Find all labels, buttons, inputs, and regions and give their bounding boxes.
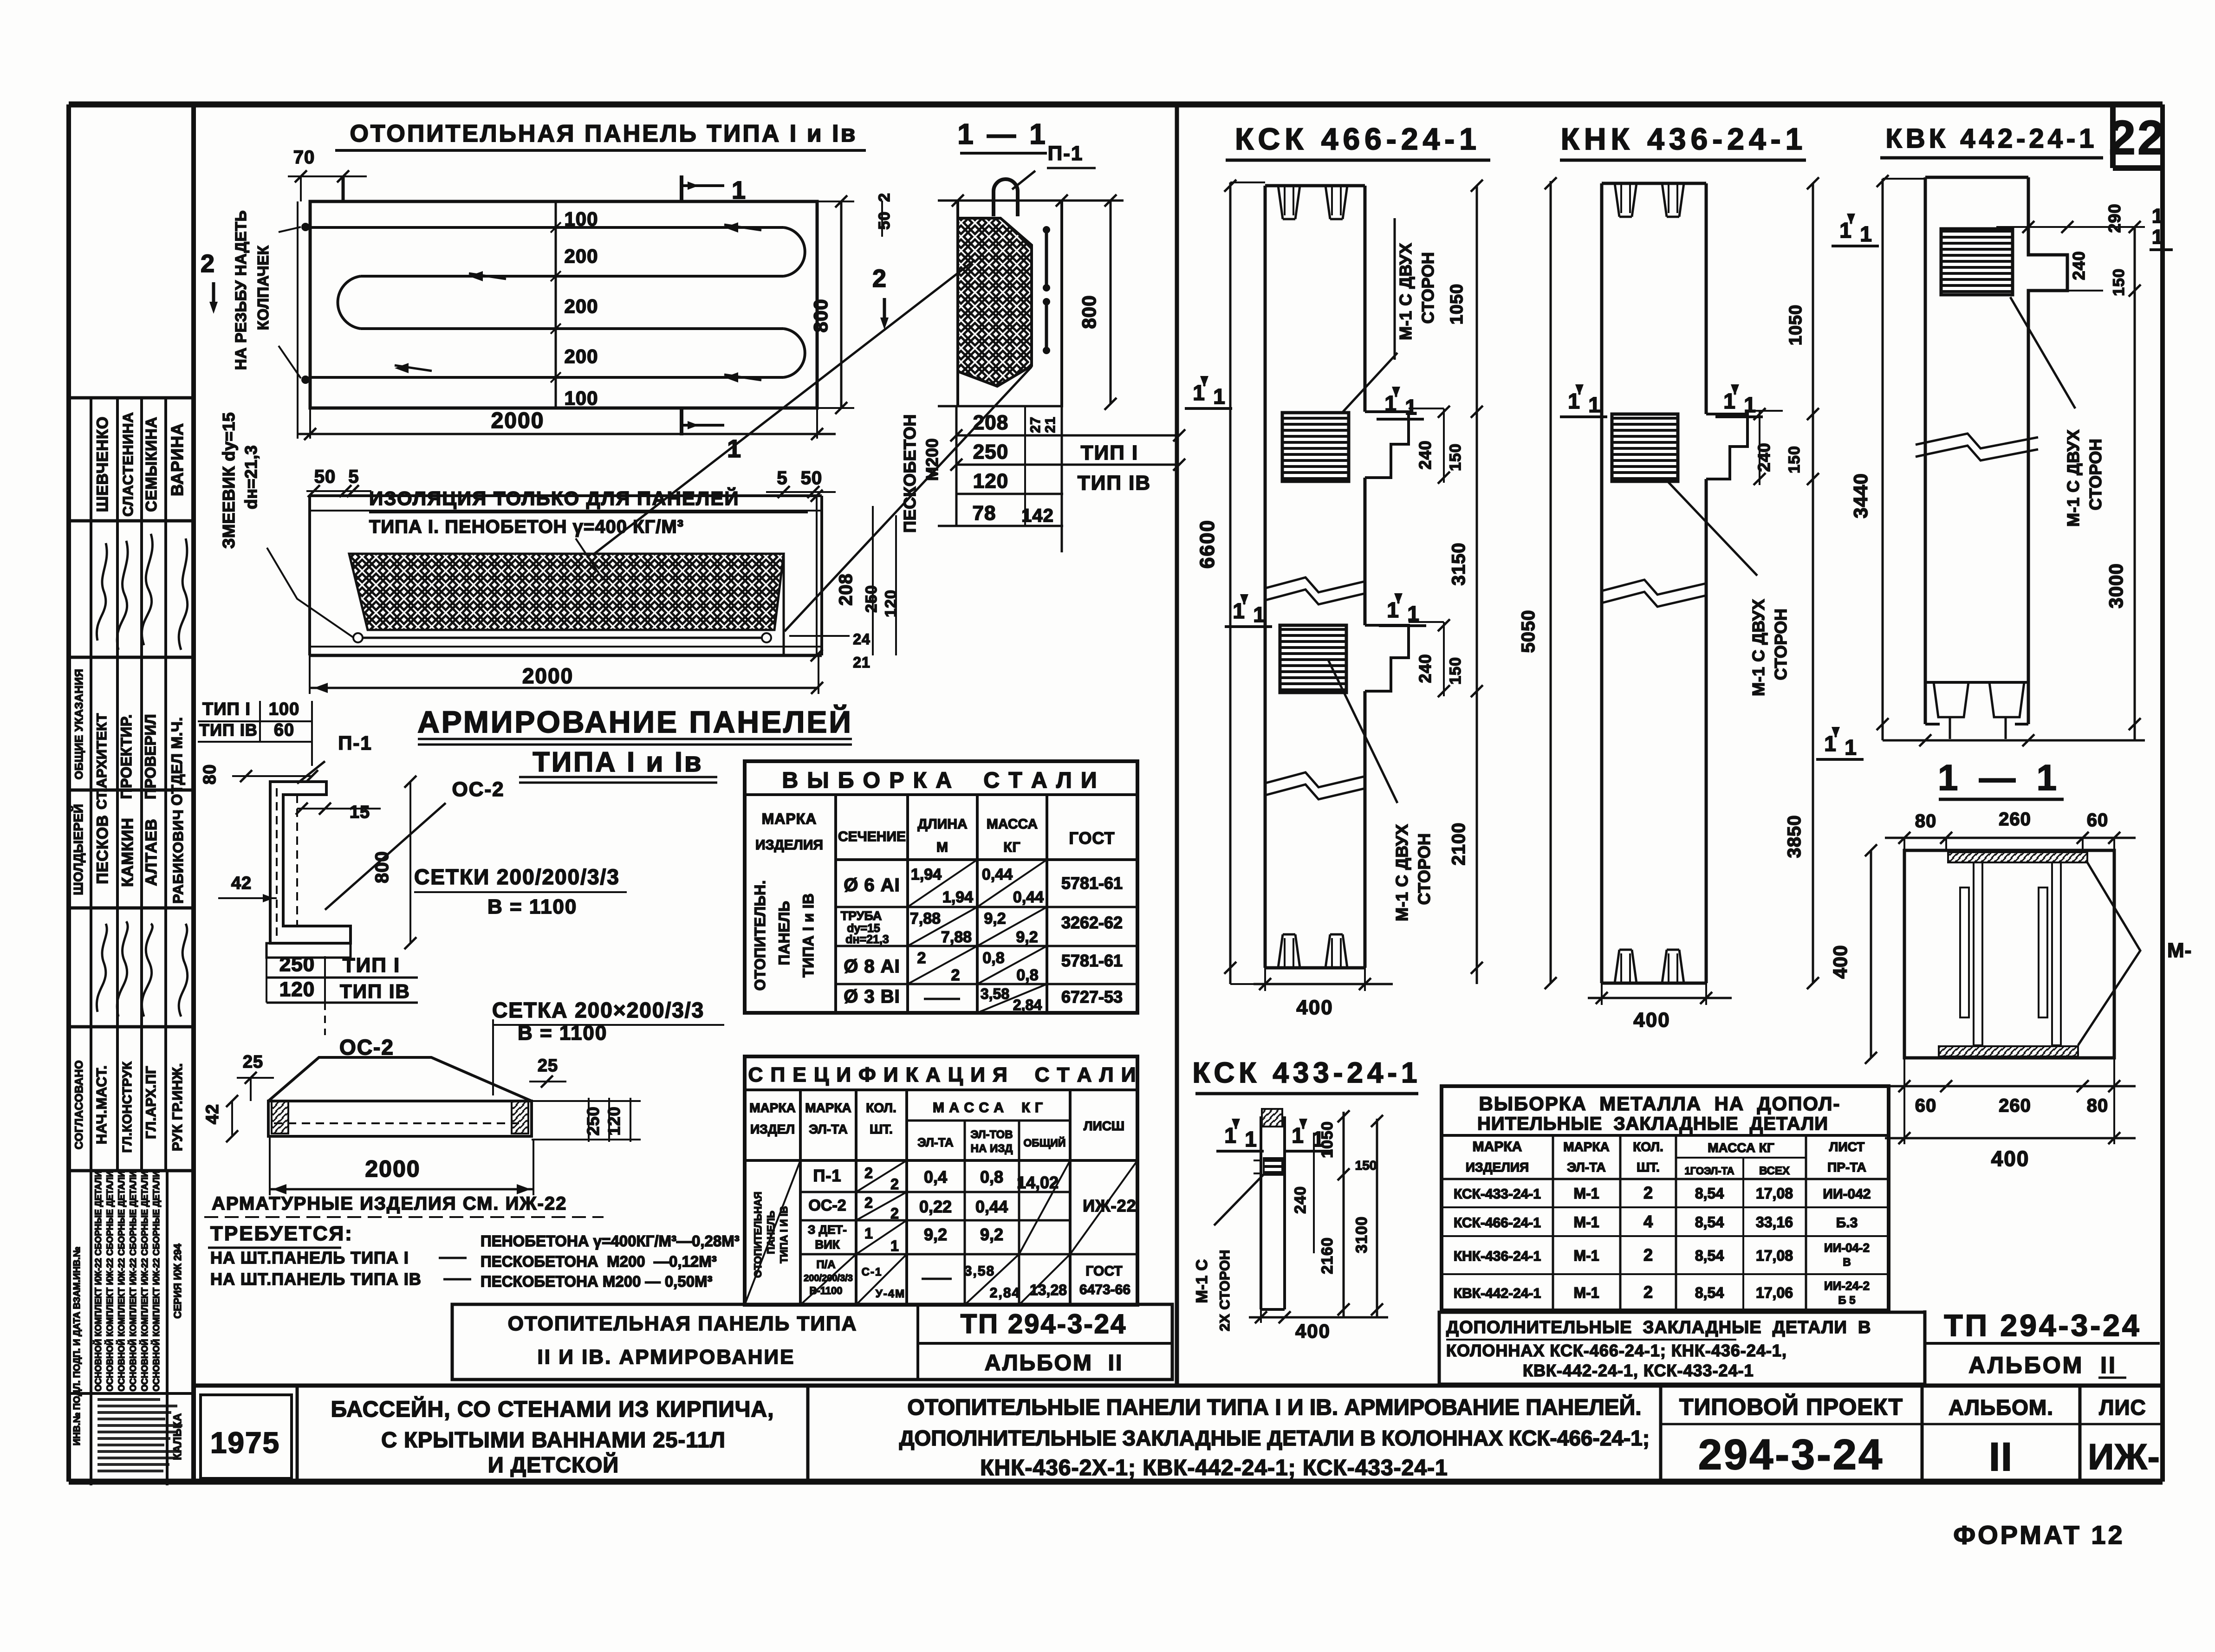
svg-text:ОС-2: ОС-2 [339, 1035, 394, 1059]
svg-text:МАРКА: МАРКА [1563, 1140, 1610, 1154]
svg-text:ГОСТ: ГОСТ [1069, 829, 1115, 848]
svg-text:М: М [936, 840, 948, 855]
svg-text:МАРКА: МАРКА [1473, 1139, 1522, 1154]
svg-text:1: 1 [1860, 222, 1872, 246]
svg-text:ПЕСКОВ: ПЕСКОВ [94, 815, 111, 884]
svg-text:М-1 С ДВУХ: М-1 С ДВУХ [1749, 599, 1768, 696]
svg-text:ОСНОВНОЙ КОМПЛЕКТ ИЖ-22 СБОРНЫ: ОСНОВНОЙ КОМПЛЕКТ ИЖ-22 СБОРНЫЕ ДЕТАЛИ [151, 1171, 162, 1391]
svg-text:3440: 3440 [1850, 473, 1871, 518]
svg-text:9,2: 9,2 [980, 1225, 1003, 1244]
svg-text:250: 250 [863, 585, 880, 613]
svg-text:ОБЩИЕ УКАЗАНИЯ: ОБЩИЕ УКАЗАНИЯ [73, 669, 85, 779]
svg-text:15: 15 [350, 803, 370, 822]
svg-text:4: 4 [1643, 1212, 1653, 1231]
svg-text:ТРЕБУЕТСЯ:: ТРЕБУЕТСЯ: [210, 1222, 353, 1245]
svg-text:2000: 2000 [491, 408, 545, 433]
svg-text:ТП 294-3-24: ТП 294-3-24 [1944, 1308, 2141, 1342]
svg-text:27: 27 [1028, 416, 1043, 433]
svg-text:5: 5 [777, 468, 787, 488]
svg-text:ПАНЕЛЬ: ПАНЕЛЬ [765, 1211, 777, 1254]
svg-text:Б.3: Б.3 [1836, 1215, 1858, 1231]
svg-text:dн=21,3: dн=21,3 [241, 445, 260, 509]
svg-text:0,8: 0,8 [1016, 966, 1038, 984]
svg-text:2: 2 [1643, 1283, 1653, 1302]
svg-text:1: 1 [1588, 393, 1600, 417]
svg-text:1: 1 [890, 1237, 900, 1254]
svg-text:СЕТКА 200×200/3/3: СЕТКА 200×200/3/3 [492, 998, 704, 1022]
svg-text:5781-61: 5781-61 [1061, 874, 1123, 893]
svg-text:1: 1 [864, 1225, 874, 1242]
svg-text:2: 2 [864, 1194, 874, 1211]
svg-text:50: 50 [801, 468, 823, 488]
svg-text:8,54: 8,54 [1695, 1284, 1724, 1301]
svg-text:42: 42 [231, 874, 252, 893]
svg-text:СТОРОН: СТОРОН [2086, 439, 2105, 511]
svg-text:ПЕНОБЕТОНА γ=400КГ/М³—0,28М³: ПЕНОБЕТОНА γ=400КГ/М³—0,28М³ [481, 1232, 740, 1250]
svg-text:150: 150 [1786, 446, 1803, 473]
svg-text:2: 2 [951, 966, 960, 984]
svg-text:290: 290 [2105, 203, 2124, 233]
svg-text:400: 400 [1295, 1320, 1331, 1342]
svg-text:П-1: П-1 [813, 1166, 842, 1185]
svg-text:КНК 436-24-1: КНК 436-24-1 [1561, 122, 1807, 156]
svg-text:1: 1 [1233, 599, 1245, 623]
svg-text:ДОПОЛНИТЕЛЬНЫЕ ЗАКЛАДНЫЕ ДЕТАЛ: ДОПОЛНИТЕЛЬНЫЕ ЗАКЛАДНЫЕ ДЕТАЛИ В КОЛОНН… [899, 1426, 1650, 1450]
svg-text:100: 100 [564, 208, 598, 230]
svg-text:ТИПА I И IВ: ТИПА I И IВ [778, 1206, 790, 1263]
svg-text:400: 400 [1633, 1009, 1670, 1031]
svg-text:В = 1100: В = 1100 [487, 895, 577, 918]
svg-text:МАРКА: МАРКА [805, 1101, 851, 1115]
svg-text:1: 1 [1744, 393, 1756, 417]
svg-text:ЛИСШ: ЛИСШ [1084, 1119, 1124, 1133]
svg-text:3000: 3000 [2105, 563, 2127, 608]
svg-text:1,94: 1,94 [911, 866, 942, 883]
svg-text:5050: 5050 [1518, 610, 1539, 653]
svg-text:ИЗДЕЛИЯ: ИЗДЕЛИЯ [755, 837, 823, 853]
svg-text:ИИ-04-2: ИИ-04-2 [1824, 1241, 1870, 1255]
svg-text:dн=21,3: dн=21,3 [845, 933, 889, 946]
svg-text:800: 800 [810, 298, 831, 332]
svg-text:8,54: 8,54 [1695, 1247, 1724, 1264]
svg-text:400: 400 [1296, 996, 1333, 1019]
svg-text:1: 1 [1193, 381, 1205, 405]
svg-text:ПР-ТА: ПР-ТА [1827, 1160, 1866, 1174]
svg-text:3150: 3150 [1449, 543, 1469, 586]
svg-text:НА ИЗД: НА ИЗД [971, 1142, 1013, 1155]
svg-text:0,8: 0,8 [980, 1167, 1003, 1186]
svg-text:60: 60 [2087, 810, 2109, 830]
svg-text:ТРУБА: ТРУБА [841, 909, 882, 923]
svg-text:КАЛЬКА: КАЛЬКА [171, 1413, 184, 1460]
svg-text:14,02: 14,02 [1017, 1173, 1059, 1192]
svg-text:ИНВ.№ ПОДЛ. ПОДП. И ДАТА ВЗАМ.: ИНВ.№ ПОДЛ. ПОДП. И ДАТА ВЗАМ.ИНВ.№ [72, 1247, 82, 1445]
svg-text:2,84: 2,84 [990, 1285, 1020, 1301]
svg-text:АРМАТУРНЫЕ ИЗДЕЛИЯ СМ. ИЖ-22: АРМАТУРНЫЕ ИЗДЕЛИЯ СМ. ИЖ-22 [212, 1193, 567, 1214]
svg-text:400: 400 [1991, 1147, 2030, 1171]
svg-text:РУК ГР.ИНЖ.: РУК ГР.ИНЖ. [170, 1063, 185, 1151]
svg-text:208: 208 [973, 411, 1008, 434]
svg-text:М200: М200 [922, 438, 942, 481]
svg-text:22: 22 [2109, 111, 2166, 165]
svg-text:120: 120 [973, 470, 1008, 492]
svg-text:100: 100 [269, 700, 299, 719]
svg-text:З ДЕТ-: З ДЕТ- [808, 1223, 847, 1237]
svg-text:50: 50 [314, 466, 336, 487]
svg-text:П-1: П-1 [338, 732, 372, 754]
svg-text:СЕЧЕНИЕ: СЕЧЕНИЕ [838, 829, 906, 844]
svg-text:РАБИКОВИЧ: РАБИКОВИЧ [170, 809, 186, 903]
svg-text:КНК-436-24-1: КНК-436-24-1 [1454, 1249, 1541, 1264]
svg-text:42: 42 [203, 1104, 222, 1124]
svg-text:0,44: 0,44 [975, 1197, 1008, 1216]
svg-text:6727-53: 6727-53 [1061, 987, 1123, 1006]
svg-text:КВК-442-24-1: КВК-442-24-1 [1454, 1286, 1541, 1301]
svg-text:ТИП I: ТИП I [1081, 441, 1139, 464]
svg-text:БАССЕЙН, СО СТЕНАМИ ИЗ КИРПИЧА: БАССЕЙН, СО СТЕНАМИ ИЗ КИРПИЧА, [331, 1396, 774, 1422]
svg-text:1,94: 1,94 [942, 888, 973, 906]
svg-text:2: 2 [917, 949, 926, 967]
svg-text:1050: 1050 [1786, 304, 1806, 346]
svg-text:КАМКИН: КАМКИН [119, 817, 136, 887]
svg-text:ЭЛ-ТА: ЭЛ-ТА [1567, 1160, 1605, 1174]
svg-text:1975: 1975 [210, 1426, 280, 1459]
svg-text:200: 200 [564, 295, 598, 317]
svg-text:АЛЬБОМ II: АЛЬБОМ II [1968, 1352, 2117, 1378]
svg-text:КНК-436-2Х-1; КВК-442-24-1; КС: КНК-436-2Х-1; КВК-442-24-1; КСК-433-24-1 [980, 1456, 1448, 1480]
svg-text:3100: 3100 [1353, 1216, 1371, 1253]
svg-text:250: 250 [973, 441, 1008, 463]
svg-text:1: 1 [1839, 218, 1851, 242]
svg-text:150: 150 [1355, 1158, 1377, 1173]
svg-text:ПРОЕКТИР.: ПРОЕКТИР. [118, 714, 135, 799]
svg-text:ТП 294-3-24: ТП 294-3-24 [961, 1309, 1127, 1339]
svg-text:ЛИСТ: ЛИСТ [1829, 1140, 1864, 1154]
svg-text:ГОСТ: ГОСТ [1085, 1263, 1122, 1279]
svg-text:КОЛОННАХ КСК-466-24-1; КНК-436: КОЛОННАХ КСК-466-24-1; КНК-436-24-1, [1446, 1341, 1787, 1360]
svg-text:ТИП I: ТИП I [202, 700, 251, 719]
svg-text:Ø 6 АI: Ø 6 АI [844, 875, 900, 895]
svg-text:М-1 С ДВУХ: М-1 С ДВУХ [1392, 824, 1411, 921]
svg-text:150: 150 [2110, 268, 2128, 296]
svg-text:5781-61: 5781-61 [1061, 951, 1123, 970]
svg-text:2: 2 [1643, 1183, 1653, 1202]
svg-text:М-1 С ДВУХ: М-1 С ДВУХ [2064, 429, 2083, 527]
svg-text:С КРЫТЫМИ ВАННАМИ 25-11Л: С КРЫТЫМИ ВАННАМИ 25-11Л [381, 1427, 726, 1452]
svg-text:ОТОПИТЕЛЬНАЯ ПАНЕЛЬ ТИПА: ОТОПИТЕЛЬНАЯ ПАНЕЛЬ ТИПА [508, 1312, 857, 1335]
svg-text:ОСНОВНОЙ КОМПЛЕКТ ИЖ-22 СБОРНЫ: ОСНОВНОЙ КОМПЛЕКТ ИЖ-22 СБОРНЫЕ ДЕТАЛИ [128, 1171, 138, 1391]
svg-text:17,08: 17,08 [1756, 1247, 1793, 1264]
svg-text:НА РЕЗЬБУ НАДЕТЬ: НА РЕЗЬБУ НАДЕТЬ [232, 210, 249, 370]
svg-text:ПРОВЕРИЛ: ПРОВЕРИЛ [142, 714, 159, 799]
svg-text:1: 1 [2152, 226, 2164, 248]
svg-text:80: 80 [2087, 1095, 2109, 1116]
svg-text:0,4: 0,4 [924, 1167, 947, 1186]
svg-text:25: 25 [538, 1056, 558, 1075]
svg-text:7,88: 7,88 [941, 928, 972, 946]
svg-text:КСК 433-24-1: КСК 433-24-1 [1192, 1057, 1421, 1089]
svg-text:П/А: П/А [816, 1258, 835, 1271]
svg-text:СТОРОН: СТОРОН [1418, 252, 1437, 324]
svg-text:1050: 1050 [1319, 1121, 1336, 1158]
svg-text:ИЗОЛЯЦИЯ ТОЛЬКО ДЛЯ ПАНЕЛЕЙ: ИЗОЛЯЦИЯ ТОЛЬКО ДЛЯ ПАНЕЛЕЙ [369, 487, 740, 509]
svg-text:2: 2 [890, 1205, 900, 1222]
svg-text:П-1: П-1 [1048, 142, 1084, 165]
svg-text:250: 250 [279, 953, 315, 976]
svg-text:У-4М: У-4М [876, 1288, 905, 1300]
svg-text:1: 1 [1405, 395, 1417, 419]
svg-text:ТИПОВОЙ ПРОЕКТ: ТИПОВОЙ ПРОЕКТ [1679, 1393, 1903, 1420]
svg-text:0,44: 0,44 [1013, 888, 1044, 906]
svg-text:2Х СТОРОН: 2Х СТОРОН [1217, 1250, 1233, 1331]
svg-text:ТИП I: ТИП I [343, 954, 401, 977]
svg-text:ВЫБОРКА МЕТАЛЛА НА ДОПОЛ-: ВЫБОРКА МЕТАЛЛА НА ДОПОЛ- [1479, 1093, 1841, 1114]
svg-text:9,2: 9,2 [984, 910, 1006, 927]
svg-text:80: 80 [200, 764, 220, 784]
svg-text:СЕМЫКИНА: СЕМЫКИНА [143, 416, 160, 512]
svg-text:1: 1 [1224, 1123, 1236, 1147]
svg-text:240: 240 [1416, 440, 1435, 469]
svg-text:2: 2 [890, 1176, 900, 1192]
svg-text:МАРКА: МАРКА [762, 810, 817, 827]
svg-text:1 — 1: 1 — 1 [957, 118, 1048, 150]
svg-text:260: 260 [1999, 809, 2031, 829]
svg-text:М-1 С ДВУХ: М-1 С ДВУХ [1396, 243, 1415, 340]
svg-text:ОС-2: ОС-2 [808, 1197, 846, 1214]
svg-text:ШОЛДЫЕРЕЙ: ШОЛДЫЕРЕЙ [71, 804, 85, 895]
svg-text:ТИПА I и IВ: ТИПА I и IВ [800, 893, 817, 977]
svg-text:М-1: М-1 [1573, 1247, 1599, 1264]
svg-text:1: 1 [1387, 598, 1399, 622]
svg-text:ВИК: ВИК [815, 1237, 839, 1251]
svg-text:КСК-466-24-1: КСК-466-24-1 [1454, 1215, 1541, 1231]
svg-text:СЕРИЯ ИЖ 294: СЕРИЯ ИЖ 294 [172, 1243, 183, 1318]
svg-text:2,84: 2,84 [1013, 997, 1042, 1013]
svg-text:3,58: 3,58 [981, 985, 1009, 1002]
svg-text:В: В [1843, 1256, 1851, 1269]
svg-text:ГЛ.АРХ.ПГ: ГЛ.АРХ.ПГ [143, 1066, 159, 1139]
svg-text:1: 1 [1845, 735, 1857, 759]
svg-text:21: 21 [853, 654, 870, 671]
svg-text:2000: 2000 [522, 664, 573, 688]
svg-text:М-1: М-1 [1573, 1185, 1599, 1202]
svg-text:0,22: 0,22 [919, 1197, 952, 1216]
svg-text:АЛЬБОМ II: АЛЬБОМ II [985, 1351, 1124, 1375]
svg-text:ОТОПИТЕЛЬНАЯ ПАНЕЛЬ ТИПА I и I: ОТОПИТЕЛЬНАЯ ПАНЕЛЬ ТИПА I и Iв [350, 120, 857, 147]
svg-text:ВАРИНА: ВАРИНА [168, 423, 187, 496]
svg-text:208: 208 [836, 573, 856, 606]
svg-text:АЛЬБОМ.: АЛЬБОМ. [1949, 1395, 2053, 1419]
svg-text:294-3-24: 294-3-24 [1698, 1431, 1884, 1478]
svg-text:ИИ-24-2: ИИ-24-2 [1824, 1279, 1870, 1293]
svg-text:ДЛИНА: ДЛИНА [917, 816, 967, 832]
svg-text:В Ы Б О Р К А С Т А Л И: В Ы Б О Р К А С Т А Л И [782, 768, 1098, 793]
svg-text:150: 150 [1447, 657, 1464, 685]
svg-text:СТ.АРХИТЕКТ: СТ.АРХИТЕКТ [94, 713, 110, 810]
svg-text:1: 1 [1245, 1127, 1257, 1151]
svg-text:СТОРОН: СТОРОН [1415, 833, 1434, 905]
svg-text:ИЖ-22: ИЖ-22 [1083, 1196, 1136, 1215]
svg-text:80: 80 [1915, 811, 1937, 831]
svg-text:400: 400 [1829, 945, 1851, 978]
svg-text:2: 2 [1643, 1245, 1653, 1264]
svg-text:33,16: 33,16 [1756, 1214, 1793, 1231]
svg-text:3850: 3850 [1784, 815, 1805, 858]
svg-text:150: 150 [1447, 443, 1464, 471]
svg-text:8,54: 8,54 [1695, 1214, 1724, 1231]
svg-text:2160: 2160 [1319, 1237, 1336, 1274]
svg-text:2: 2 [872, 265, 887, 292]
svg-text:5: 5 [348, 466, 359, 487]
svg-text:ОТДЕЛ М.Ч.: ОТДЕЛ М.Ч. [169, 717, 185, 805]
svg-text:ЭЛ-ТОВ: ЭЛ-ТОВ [970, 1128, 1013, 1141]
svg-text:КВК-442-24-1, КСК-433-24-1: КВК-442-24-1, КСК-433-24-1 [1523, 1361, 1754, 1380]
svg-text:ТИП IВ: ТИП IВ [1078, 472, 1151, 494]
svg-text:ИЖ-: ИЖ- [2088, 1436, 2160, 1477]
svg-text:ЭЛ-ТА: ЭЛ-ТА [809, 1122, 847, 1136]
svg-text:120: 120 [279, 978, 315, 1001]
svg-text:ОСНОВНОЙ КОМПЛЕКТ ИЖ-22 СБОРНЫ: ОСНОВНОЙ КОМПЛЕКТ ИЖ-22 СБОРНЫЕ ДЕТАЛИ [93, 1171, 104, 1391]
svg-text:3,58: 3,58 [964, 1263, 995, 1279]
svg-text:М А С С А К Г: М А С С А К Г [933, 1100, 1043, 1115]
svg-text:КВК 442-24-1: КВК 442-24-1 [1886, 123, 2098, 154]
svg-text:ШТ.: ШТ. [1637, 1160, 1660, 1174]
svg-text:ОТОПИТЕЛЬН.: ОТОПИТЕЛЬН. [752, 880, 768, 991]
svg-text:3262-62: 3262-62 [1061, 913, 1123, 932]
svg-text:ТИП IВ: ТИП IВ [340, 980, 410, 1002]
svg-text:1: 1 [732, 176, 747, 204]
svg-text:60: 60 [274, 720, 294, 740]
svg-text:ЗМЕЕВИК dу=15: ЗМЕЕВИК dу=15 [219, 412, 238, 549]
svg-text:2100: 2100 [1449, 823, 1469, 866]
svg-text:СЛАСТЕНИНА: СЛАСТЕНИНА [120, 412, 136, 517]
svg-text:СТОРОН: СТОРОН [1771, 609, 1790, 680]
svg-text:Ø 8 АI: Ø 8 АI [844, 956, 900, 977]
svg-text:ДОПОЛНИТЕЛЬНЫЕ ЗАКЛАДНЫЕ ДЕТ: ДОПОЛНИТЕЛЬНЫЕ ЗАКЛАДНЫЕ ДЕТАЛИ В [1446, 1318, 1871, 1337]
svg-text:Б 5: Б 5 [1838, 1294, 1855, 1307]
svg-text:2: 2 [864, 1165, 874, 1181]
svg-text:200: 200 [564, 245, 598, 267]
svg-text:ИЗДЕЛ: ИЗДЕЛ [750, 1122, 795, 1136]
svg-text:240: 240 [2069, 251, 2088, 280]
svg-text:ШЕВЧЕНКО: ШЕВЧЕНКО [94, 416, 111, 512]
svg-text:СОГЛАСОВАНО: СОГЛАСОВАНО [73, 1060, 85, 1149]
svg-text:1: 1 [1213, 384, 1225, 408]
svg-text:ВСЕХ: ВСЕХ [1759, 1165, 1790, 1177]
svg-text:КСК-433-24-1: КСК-433-24-1 [1454, 1186, 1541, 1202]
svg-text:50: 50 [876, 211, 893, 230]
svg-text:С-1: С-1 [862, 1266, 883, 1278]
svg-text:240: 240 [1292, 1186, 1309, 1214]
svg-text:100: 100 [564, 387, 598, 409]
svg-text:II: II [1989, 1435, 2013, 1479]
svg-text:КСК 466-24-1: КСК 466-24-1 [1235, 122, 1481, 156]
svg-text:1 — 1: 1 — 1 [1938, 757, 2062, 798]
svg-text:ОС-2: ОС-2 [452, 778, 504, 801]
svg-text:1: 1 [1824, 732, 1836, 756]
svg-text:ТИПА I и Iв: ТИПА I и Iв [533, 746, 703, 777]
svg-text:800: 800 [1078, 295, 1100, 329]
svg-text:СЕТКИ 200/200/3/3: СЕТКИ 200/200/3/3 [414, 865, 620, 889]
svg-text:КОЛПАЧЕК: КОЛПАЧЕК [254, 245, 272, 330]
svg-text:ЛИС: ЛИС [2099, 1395, 2146, 1419]
svg-text:200: 200 [564, 345, 598, 367]
svg-text:ОСНОВНОЙ КОМПЛЕКТ ИЖ-22 СБОРНЫ: ОСНОВНОЙ КОМПЛЕКТ ИЖ-22 СБОРНЫЕ ДЕТАЛИ [105, 1171, 115, 1391]
svg-text:240: 240 [1754, 442, 1773, 472]
svg-text:8,54: 8,54 [1695, 1185, 1724, 1202]
svg-text:НИТЕЛЬНЫЕ ЗАКЛАДНЫЕ ДЕТАЛИ: НИТЕЛЬНЫЕ ЗАКЛАДНЫЕ ДЕТАЛИ [1477, 1114, 1828, 1134]
svg-text:21: 21 [1043, 416, 1058, 433]
svg-text:2: 2 [876, 193, 893, 202]
svg-text:2: 2 [201, 250, 215, 278]
svg-text:78: 78 [973, 502, 996, 525]
svg-text:1: 1 [1384, 391, 1397, 415]
svg-text:ОСНОВНОЙ КОМПЛЕКТ ИЖ-22 СБОРНЫ: ОСНОВНОЙ КОМПЛЕКТ ИЖ-22 СБОРНЫЕ ДЕТАЛИ [117, 1171, 127, 1391]
svg-text:70: 70 [293, 147, 315, 168]
svg-text:ОТОПИТЕЛЬНАЯ: ОТОПИТЕЛЬНАЯ [752, 1192, 764, 1278]
svg-text:1ГОЭЛ-ТА: 1ГОЭЛ-ТА [1684, 1165, 1734, 1177]
svg-text:II И IВ. АРМИРОВАНИЕ: II И IВ. АРМИРОВАНИЕ [538, 1346, 795, 1368]
svg-text:КОЛ.: КОЛ. [866, 1101, 896, 1115]
svg-text:ПЕСКОБЕТОНА М200 — 0,50М³: ПЕСКОБЕТОНА М200 — 0,50М³ [481, 1273, 713, 1290]
svg-text:ОТОПИТЕЛЬНЫЕ ПАНЕЛИ ТИПА I И I: ОТОПИТЕЛЬНЫЕ ПАНЕЛИ ТИПА I И IВ. АРМИРОВ… [907, 1394, 1641, 1420]
svg-text:24: 24 [853, 631, 870, 648]
svg-text:АРМИРОВАНИЕ ПАНЕЛЕЙ: АРМИРОВАНИЕ ПАНЕЛЕЙ [417, 704, 853, 739]
svg-text:1050: 1050 [1447, 284, 1467, 325]
svg-text:17,06: 17,06 [1756, 1284, 1793, 1301]
svg-text:1: 1 [2152, 205, 2164, 227]
svg-text:АЛТАЕВ: АЛТАЕВ [143, 818, 160, 886]
svg-text:ТИП IВ: ТИП IВ [199, 720, 258, 739]
svg-text:60: 60 [1915, 1095, 1937, 1116]
svg-text:2000: 2000 [365, 1156, 420, 1182]
svg-text:142: 142 [1021, 505, 1054, 526]
svg-text:ФОРМАТ 12: ФОРМАТ 12 [1953, 1520, 2124, 1549]
svg-text:1: 1 [1292, 1123, 1304, 1147]
svg-text:КОЛ.: КОЛ. [1633, 1140, 1663, 1154]
svg-text:13,28: 13,28 [1030, 1282, 1067, 1298]
svg-text:240: 240 [1416, 654, 1435, 683]
svg-text:0,8: 0,8 [982, 949, 1004, 967]
svg-text:НАЧ.МАСТ.: НАЧ.МАСТ. [93, 1065, 110, 1144]
svg-text:1: 1 [1723, 389, 1735, 413]
svg-text:ОСНОВНОЙ КОМПЛЕКТ ИЖ-22 СБОРНЫ: ОСНОВНОЙ КОМПЛЕКТ ИЖ-22 СБОРНЫЕ ДЕТАЛИ [140, 1171, 150, 1391]
svg-text:9,2: 9,2 [1016, 928, 1038, 946]
svg-text:ИЗДЕЛИЯ: ИЗДЕЛИЯ [1466, 1160, 1529, 1174]
svg-text:9,2: 9,2 [924, 1225, 947, 1244]
svg-text:0,44: 0,44 [982, 866, 1013, 883]
svg-text:260: 260 [1999, 1095, 2031, 1116]
svg-text:1: 1 [1253, 602, 1265, 627]
svg-text:ИИ-042: ИИ-042 [1823, 1186, 1871, 1202]
svg-text:ЭЛ-ТА: ЭЛ-ТА [917, 1135, 954, 1149]
svg-text:6600: 6600 [1196, 519, 1219, 569]
svg-text:ОБЩИЙ: ОБЩИЙ [1024, 1136, 1066, 1149]
svg-text:В-1100: В-1100 [810, 1285, 843, 1296]
svg-text:КГ: КГ [1003, 840, 1020, 855]
svg-text:120: 120 [882, 590, 900, 617]
svg-text:М-: М- [2167, 939, 2192, 962]
svg-text:ШТ.: ШТ. [870, 1122, 893, 1136]
svg-text:М-1: М-1 [1573, 1284, 1599, 1301]
svg-text:МАРКА: МАРКА [749, 1101, 796, 1115]
svg-text:1: 1 [1568, 389, 1580, 413]
svg-text:НА ШТ.ПАНЕЛЬ ТИПА I: НА ШТ.ПАНЕЛЬ ТИПА I [210, 1248, 409, 1267]
svg-text:250: 250 [584, 1106, 603, 1135]
svg-text:Ø 3 ВI: Ø 3 ВI [844, 986, 900, 1007]
svg-text:М-1 С: М-1 С [1193, 1259, 1211, 1303]
svg-text:МАССА КГ: МАССА КГ [1708, 1140, 1774, 1155]
